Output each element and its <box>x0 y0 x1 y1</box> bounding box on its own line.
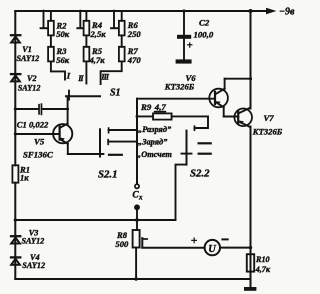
resistor R2 <box>48 12 54 35</box>
svg-text:50к: 50к <box>56 29 70 39</box>
label Отсчет <box>137 150 172 159</box>
svg-text:4,7к: 4,7к <box>255 265 271 274</box>
wire C1 left <box>15 108 38 110</box>
svg-text:I: I <box>66 71 71 81</box>
transistor V7 emitter arrow <box>240 121 244 125</box>
svg-text:C2: C2 <box>199 17 210 27</box>
resistor R6 <box>119 12 125 35</box>
label V4 SAY12 <box>22 253 45 270</box>
resistor R1 <box>12 165 18 182</box>
label R9 4,7 underlined <box>140 102 166 112</box>
svg-text:КТ326Б: КТ326Б <box>252 127 283 137</box>
label R2 50к <box>56 20 70 39</box>
wire V5 emitter to S2.1 wiper <box>68 153 104 155</box>
transistor V6 <box>209 79 250 117</box>
diode V1 <box>11 35 20 42</box>
svg-text:R10: R10 <box>255 255 270 264</box>
wire right bus lower <box>250 127 252 288</box>
label R6 250 <box>127 20 142 39</box>
label R5 4,7к <box>89 46 106 65</box>
label Cx <box>132 190 143 201</box>
wire node to V6 base <box>137 98 215 100</box>
label R1 1к <box>19 164 30 182</box>
svg-text:C1 0,022: C1 0,022 <box>17 119 49 129</box>
label contact II <box>77 74 84 83</box>
label Разряд <box>138 125 172 134</box>
wire left rail lower <box>14 183 16 279</box>
label C2 plus <box>187 40 193 52</box>
svg-text:−9в: −9в <box>279 7 295 18</box>
svg-text:V5: V5 <box>34 137 45 147</box>
wire C1 right to collector node <box>42 108 67 110</box>
switch S2.1 dash contact row3 <box>109 154 122 156</box>
svg-text:SAY12: SAY12 <box>22 261 45 270</box>
label contact III <box>100 72 109 81</box>
svg-text:100,0: 100,0 <box>194 29 214 39</box>
transistor V5 <box>15 96 72 154</box>
wire right bus upper <box>250 11 252 109</box>
svg-text:U: U <box>208 244 216 255</box>
wire bottom rail <box>15 278 250 280</box>
switch S2.1 fixed contact row2 <box>108 140 137 145</box>
label R8 500 <box>115 230 129 249</box>
label V1 SAY12 <box>17 45 40 63</box>
svg-text:+: + <box>191 235 198 247</box>
svg-text:V7: V7 <box>264 113 275 123</box>
label V6 КТ326Б <box>164 73 196 91</box>
svg-text:S2.1: S2.1 <box>98 168 118 180</box>
label R10 4,7к <box>255 255 271 274</box>
capacitor C2 <box>183 11 185 59</box>
wire mid horizontal <box>15 219 175 221</box>
resistor R3 <box>48 35 54 61</box>
wire S2.2 wiper to bottom node <box>176 165 187 220</box>
svg-text:S1: S1 <box>110 87 121 98</box>
resistor R7 <box>119 35 125 61</box>
svg-text:4,7: 4,7 <box>154 102 167 112</box>
switch S2.2 fixed contact top <box>195 116 209 130</box>
terminal Cx lower <box>135 205 139 209</box>
label R3 56к <box>56 46 70 65</box>
resistor R8 <box>133 230 140 279</box>
diode V3 <box>11 236 20 243</box>
diode V2 <box>11 74 20 81</box>
transistor V5 emitter arrow <box>60 138 65 142</box>
wire Cx lower to R8 <box>136 209 138 230</box>
svg-text:S2.2: S2.2 <box>190 168 210 180</box>
label C2 100,0 <box>194 17 214 39</box>
label V5 SF136C <box>23 137 53 160</box>
wire R3 to contact I <box>51 61 65 79</box>
svg-text:„Отсчет: „Отсчет <box>137 150 172 159</box>
label minus meter <box>222 238 227 240</box>
label V3 SAY12 <box>22 229 45 246</box>
switch S2.2 dash contact 2 <box>199 153 211 155</box>
svg-text:470: 470 <box>127 55 142 65</box>
svg-text:56к: 56к <box>56 55 70 65</box>
switch S1 wiper bar <box>66 91 100 100</box>
resistor R9 <box>137 113 208 119</box>
svg-text:SAY12: SAY12 <box>18 83 41 92</box>
label V7 КТ326Б <box>252 113 283 136</box>
switch S1 fixed contact tick 1 <box>41 12 47 28</box>
svg-text:„Разряд”: „Разряд” <box>138 125 172 134</box>
label S1 <box>110 87 121 98</box>
label C1 0,022 <box>17 119 49 129</box>
switch S2.1 wiper bar <box>99 129 101 156</box>
switch S1 fixed contact tick 3 <box>111 12 117 28</box>
svg-text:КТ326Б: КТ326Б <box>164 82 195 92</box>
label Заряд <box>138 137 168 146</box>
svg-text:V2: V2 <box>27 74 37 83</box>
switch S2.2 dash contact 1 <box>199 142 211 144</box>
svg-text:R9: R9 <box>140 102 152 112</box>
ground chassis bar <box>244 287 256 291</box>
svg-text:250: 250 <box>127 29 142 39</box>
node -9в label <box>279 7 295 18</box>
transistor V6 emitter arrow <box>216 101 220 105</box>
wire -9v arrowhead <box>266 8 277 15</box>
svg-text:x: x <box>138 193 143 201</box>
wire contact to meter <box>142 247 204 249</box>
wire left rail upper <box>14 11 16 165</box>
switch contact at R8 <box>142 238 147 247</box>
terminal Cx upper <box>135 184 139 188</box>
resistor R5 <box>84 35 90 61</box>
label R7 470 <box>127 46 142 65</box>
switch S2.2 wiper bar <box>182 131 192 165</box>
capacitor C1 plates <box>38 103 42 115</box>
meter U <box>205 240 220 255</box>
switch S1 fixed contact tick 2 <box>77 12 83 28</box>
capacitor C2 plates <box>176 35 192 64</box>
svg-text:V1: V1 <box>22 45 32 54</box>
label U <box>208 244 216 255</box>
label plus meter <box>191 235 198 247</box>
resistor R4 <box>84 12 90 35</box>
svg-text:2,5к: 2,5к <box>90 29 107 39</box>
wire R7 to contact III <box>101 61 122 84</box>
svg-text:SAY12: SAY12 <box>17 54 40 63</box>
svg-text:1к: 1к <box>20 173 29 183</box>
svg-text:4,7к: 4,7к <box>89 55 106 65</box>
transistor V7 <box>234 108 252 128</box>
svg-text:500: 500 <box>115 239 129 249</box>
label S2.2 <box>190 168 210 180</box>
label contact I <box>66 71 71 81</box>
diode V4 <box>11 257 20 264</box>
node wire Cx vertical <box>136 99 138 184</box>
resistor R10 <box>247 254 254 271</box>
label V2 SAY12 <box>18 74 41 92</box>
label R4 2,5к <box>90 20 107 39</box>
svg-text:„Заряд”: „Заряд” <box>138 137 168 146</box>
wire meter to bus <box>220 247 251 249</box>
switch S2.1 fixed contact row1 <box>109 128 137 133</box>
svg-text:SAY12: SAY12 <box>22 237 45 246</box>
label S2.1 <box>98 168 118 180</box>
wire top supply rail <box>15 10 267 12</box>
svg-text:SF136C: SF136C <box>23 149 53 159</box>
wire R5 contact II <box>85 61 87 83</box>
svg-text:+: + <box>187 40 193 52</box>
